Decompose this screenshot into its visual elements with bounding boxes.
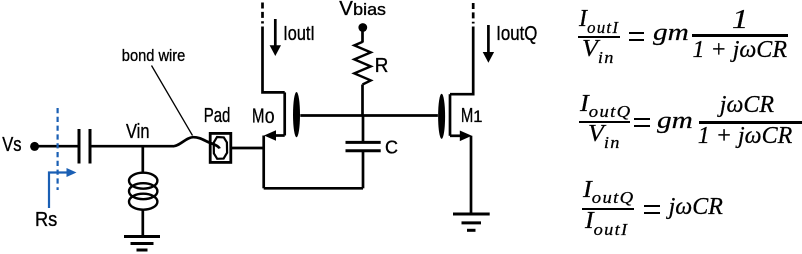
- transistor M1 drain wire (dashed continuation at top): [472, 3, 475, 24]
- svg-text:M: M: [252, 106, 264, 128]
- capacitor (input coupling cap) left plate: [78, 129, 81, 164]
- current arrow IoutI: [274, 19, 277, 46]
- wire: capacitor to bond wire / node Vin: [92, 145, 174, 148]
- svg-text:Vin: Vin: [126, 121, 150, 143]
- svg-text:V: V: [339, 0, 353, 20]
- node Vs (source node dot): [30, 142, 39, 151]
- transistor M1 gate electrode (filled ellipse): [438, 94, 445, 139]
- wire: capacitor C bottom lead: [362, 151, 365, 188]
- resistor R (zigzag): [354, 42, 371, 85]
- pad (pad box with octagonal pad metal): [210, 133, 231, 162]
- svg-text:C: C: [385, 138, 398, 158]
- pointer line for bond wire label: [152, 66, 193, 136]
- inductor L (3-loop coil to ground): [129, 173, 157, 189]
- transistor M0 channel bar: [283, 92, 286, 135]
- resistor R top lead from Vbias: [361, 28, 364, 43]
- svg-text:Pad: Pad: [204, 105, 231, 127]
- wire: inductor top lead from node Vin: [141, 146, 144, 173]
- capacitor C top plate: [346, 141, 381, 144]
- transistor M1 channel bar: [449, 94, 452, 136]
- wire: M0 source vertical down to bottom wire: [262, 136, 265, 189]
- wire: Vs node to coupling capacitor: [38, 145, 78, 148]
- node Vbias (dot): [358, 23, 367, 32]
- wire: M1 source down to ground: [470, 136, 473, 214]
- bond wire (wavy wire into pad): [173, 137, 220, 148]
- wire: gate bus from M0 gate to M1 gate: [300, 114, 438, 117]
- capacitor (input coupling cap) right plate: [89, 129, 92, 164]
- transistor M0 drain wire (dashed continuation at top): [261, 3, 264, 24]
- svg-text:M: M: [461, 105, 473, 127]
- wire: pad to M0 source node: [231, 147, 264, 150]
- equation 1: IoutI/Vin = gm * 1/(1+jwCR): [579, 7, 619, 31]
- svg-text:1: 1: [473, 108, 482, 126]
- svg-text:IoutQ: IoutQ: [496, 23, 537, 45]
- reference plane (blue dashed line): [56, 108, 58, 190]
- svg-text:Rs: Rs: [35, 209, 57, 231]
- equation 2: IoutQ/Vin = gm * jwCR/(1+jwCR): [580, 92, 631, 116]
- transistor M0 source stub: [275, 134, 285, 137]
- Rs arrow (blue): [49, 108, 77, 208]
- wire: bottom wire from M0 source to capacitor C: [264, 187, 363, 190]
- transistor M0 source arrow: [264, 130, 276, 141]
- wire: capacitor C top lead to gate bus: [362, 116, 365, 143]
- svg-text:R: R: [375, 55, 389, 77]
- resistor R bottom lead: [361, 85, 364, 116]
- transistor M0 gate electrode (filled ellipse): [293, 92, 300, 137]
- transistor M1 source stub: [450, 134, 461, 137]
- transistor M1 drain top stub and wire: [450, 27, 473, 95]
- svg-text:bias: bias: [353, 0, 386, 19]
- ground (under M1): [453, 214, 490, 230]
- transistor M0 drain wire and top stub: [263, 27, 285, 93]
- svg-text:IoutI: IoutI: [283, 23, 315, 45]
- current arrow IoutQ: [487, 25, 490, 53]
- svg-text:0: 0: [265, 109, 275, 127]
- ground (under inductor): [124, 237, 160, 251]
- capacitor C bottom plate: [346, 149, 381, 152]
- wire: inductor bottom lead to ground: [141, 209, 144, 236]
- transistor M1 source arrow: [460, 131, 472, 142]
- equation 3: IoutQ/IoutI = jwCR: [583, 178, 634, 202]
- svg-text:Vs: Vs: [2, 134, 21, 156]
- svg-text:bond wire: bond wire: [122, 47, 186, 65]
